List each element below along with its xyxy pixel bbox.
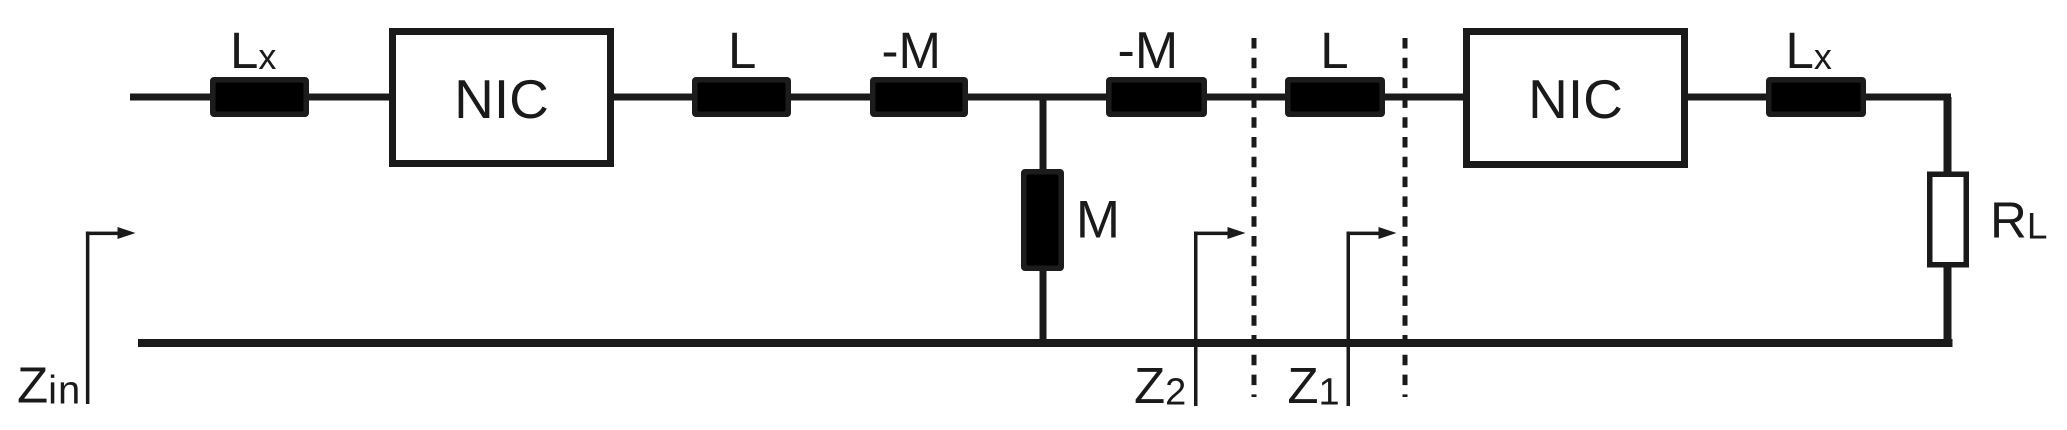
NIC box (left) U1: [393, 32, 611, 164]
dashed reference line Z2 plane: [1252, 38, 1257, 397]
inductor M (shunt): [1021, 169, 1064, 271]
wire right vertical branch: [1944, 97, 1952, 342]
inductor -M (right): [1106, 77, 1207, 117]
inductor L (left): [692, 77, 791, 117]
resistor RL: [1930, 174, 1967, 265]
arrow Z2: [1194, 232, 1198, 407]
wire shunt branch (node to bottom rail): [1040, 97, 1047, 342]
inductor Lx (left): [210, 77, 309, 117]
svg-text:NIC: NIC: [1528, 68, 1623, 130]
svg-text:M: M: [1076, 191, 1120, 250]
inductor Lx (right): [1766, 77, 1866, 117]
inductor L (right): [1285, 77, 1385, 117]
svg-text:-M: -M: [1118, 22, 1179, 80]
arrow Zin: [86, 232, 90, 405]
NIC box (right) U2: [1467, 32, 1685, 165]
svg-text:-M: -M: [882, 22, 941, 79]
wire bottom rail: [138, 339, 1953, 347]
svg-text:L: L: [1320, 22, 1348, 79]
wire top rail: [130, 94, 1951, 101]
dashed reference line Z1 plane: [1403, 38, 1408, 397]
svg-text:L: L: [728, 22, 756, 79]
inductor -M (left): [870, 77, 968, 117]
svg-text:NIC: NIC: [454, 68, 549, 130]
arrow Z1: [1347, 232, 1351, 407]
